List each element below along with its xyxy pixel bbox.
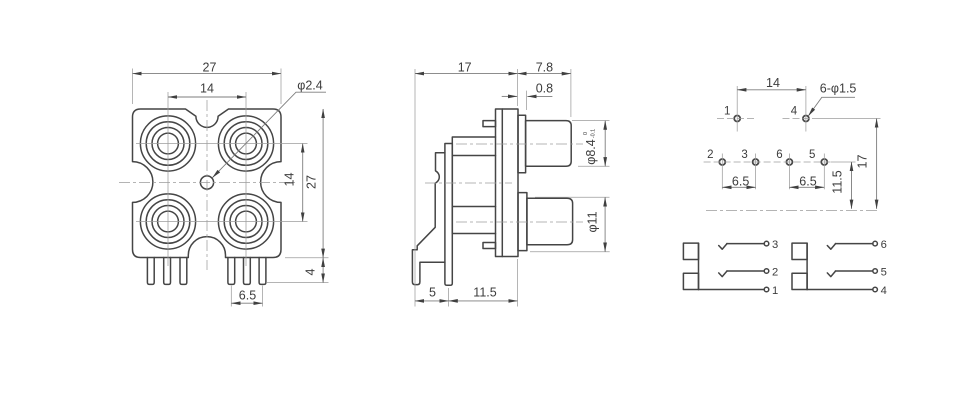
dim 0.8	[502, 81, 553, 110]
svg-text:0: 0	[583, 132, 589, 135]
pin 1	[734, 116, 740, 122]
pin 3	[753, 159, 759, 165]
leg pin 3 (front view, left group)	[180, 258, 187, 285]
svg-text:5: 5	[809, 149, 815, 161]
bottom jack centerline	[456, 221, 583, 223]
flange	[496, 109, 519, 257]
svg-text:7.8: 7.8	[536, 61, 553, 75]
leg pin 1 (front view, left group)	[147, 258, 154, 285]
dim 6.5 bottom	[231, 286, 262, 307]
jack BL	[140, 194, 195, 249]
svg-text:14: 14	[200, 81, 214, 95]
top jack cylinder phi8.4	[526, 121, 572, 167]
svg-text:6-φ1.5: 6-φ1.5	[820, 82, 857, 96]
bottom jack collar	[518, 193, 527, 251]
body centerline vertical	[206, 100, 208, 270]
label 6-phi1.5 with leader	[808, 82, 856, 116]
pin 5	[821, 159, 827, 165]
svg-text:27: 27	[203, 61, 217, 75]
svg-text:6: 6	[881, 239, 887, 251]
wire to pin 3	[727, 243, 765, 245]
pin 5 terminal	[873, 269, 878, 274]
leg pin 2 (front view, left group)	[164, 258, 171, 285]
dim 27 top	[133, 61, 282, 105]
svg-text:1: 1	[772, 285, 778, 297]
bracket	[412, 153, 445, 285]
dim phi11	[530, 197, 610, 251]
centerline vertical col2	[245, 92, 247, 266]
body outline	[133, 109, 282, 258]
flange pin top	[483, 121, 496, 127]
svg-text:φ2.4: φ2.4	[297, 79, 323, 93]
wire to pin 5	[835, 270, 873, 272]
switch contact 3	[719, 244, 727, 250]
leg pin 4 (front view, right group)	[228, 258, 235, 285]
svg-text:1: 1	[724, 106, 730, 118]
pin4 centerline vertical	[805, 86, 807, 132]
svg-text:14: 14	[283, 173, 297, 187]
left bus wire	[698, 243, 700, 289]
svg-text:3: 3	[772, 239, 778, 251]
centerline horizontal row2	[136, 221, 308, 223]
pin6 centerline vertical	[788, 154, 790, 190]
svg-text:6.5: 6.5	[732, 174, 749, 188]
pin3 centerline vertical	[755, 154, 757, 190]
pin 6	[786, 159, 792, 165]
pin2 centerline vertical	[721, 154, 723, 190]
pin 4 terminal	[873, 287, 878, 292]
svg-text:φ8.4: φ8.4	[584, 139, 598, 165]
leg pin 6 (front view, right group)	[259, 258, 266, 285]
wire to pin 1	[699, 289, 765, 291]
dim 14 top	[168, 81, 246, 97]
wire to pin 6	[835, 243, 873, 245]
pin 2 terminal	[764, 269, 769, 274]
svg-text:27: 27	[304, 175, 318, 189]
dim 17 top	[415, 61, 518, 307]
body step line upper	[452, 155, 495, 157]
dim 6.5 left pair	[722, 174, 755, 188]
pin 3 terminal	[764, 241, 769, 246]
pin 2	[719, 159, 725, 165]
svg-text:17: 17	[856, 155, 870, 169]
jack TL	[140, 116, 195, 171]
row1 extension to 17 dim	[812, 118, 881, 120]
row2 extension to 11.5 dim	[831, 161, 856, 163]
svg-text:4: 4	[881, 285, 887, 297]
dim 7.8 top	[518, 61, 571, 118]
body centerline horizontal	[119, 182, 295, 184]
wire to pin 2	[727, 270, 765, 272]
switch contact 6	[827, 244, 835, 250]
centerline vertical col1	[167, 92, 169, 266]
svg-text:6: 6	[776, 149, 782, 161]
svg-text:6.5: 6.5	[799, 174, 816, 188]
pin 1 terminal	[764, 287, 769, 292]
switch contact 2	[719, 271, 727, 277]
dim 5 bottom	[415, 286, 449, 307]
svg-text:11.5: 11.5	[473, 286, 496, 300]
jack BR	[218, 194, 273, 249]
svg-text:2: 2	[707, 149, 713, 161]
label phi2.4 with leader	[212, 79, 326, 178]
dim 27 right	[285, 109, 329, 258]
dim 4 right	[267, 258, 329, 283]
right jack body square top	[792, 243, 807, 259]
dim 11.5 bottom	[449, 259, 518, 307]
body block	[452, 137, 495, 234]
right jack body square bottom	[792, 273, 807, 289]
svg-text:φ11: φ11	[586, 211, 600, 232]
svg-text:6.5: 6.5	[239, 289, 256, 303]
dim phi8.4	[572, 121, 610, 167]
wire to pin 4	[807, 289, 873, 291]
svg-text:0.8: 0.8	[536, 81, 553, 95]
pin 4	[803, 116, 809, 122]
top jack centerline	[456, 143, 583, 145]
row2 centerline	[704, 161, 831, 163]
svg-text:14: 14	[766, 76, 780, 90]
leg pin 5 (front view, right group)	[244, 258, 251, 285]
wall / front shield with leg	[445, 144, 452, 286]
pin1 centerline vertical	[736, 86, 738, 132]
centerline horizontal row1	[136, 143, 308, 145]
pin 6 terminal	[873, 241, 878, 246]
dim 14 right	[283, 144, 303, 222]
body step line lower	[452, 206, 495, 208]
svg-text:2: 2	[772, 267, 778, 279]
dim 6.5 right pair	[789, 174, 824, 188]
dim 14	[737, 76, 806, 90]
flange face line	[501, 109, 503, 257]
svg-text:4: 4	[304, 268, 318, 275]
right bus wire	[806, 243, 808, 289]
overall centerline	[425, 182, 512, 184]
flange pin bottom	[483, 243, 496, 249]
svg-text:5: 5	[429, 286, 436, 300]
jack TR	[218, 116, 273, 171]
dim 17 vertical	[856, 119, 877, 209]
top jack collar	[518, 115, 526, 173]
bottom jack cylinder phi11	[527, 198, 573, 245]
center hole phi2.4	[200, 176, 213, 189]
svg-text:11.5: 11.5	[830, 170, 844, 193]
switch contact 5	[827, 271, 835, 277]
pin5 centerline vertical	[823, 154, 825, 190]
svg-text:3: 3	[741, 149, 747, 161]
row1 centerline	[717, 118, 757, 120]
bottom reference centerline	[706, 209, 880, 211]
svg-text:-0.1: -0.1	[591, 129, 597, 138]
left jack body square bottom	[683, 273, 698, 289]
svg-text:4: 4	[791, 105, 798, 117]
left jack body square top	[683, 243, 698, 259]
svg-text:5: 5	[881, 267, 887, 279]
dim 11.5 vertical	[830, 162, 851, 209]
svg-text:17: 17	[458, 61, 472, 75]
